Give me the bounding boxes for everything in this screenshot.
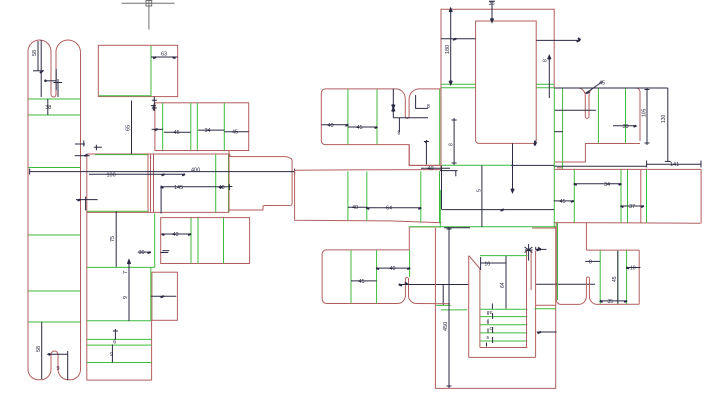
svg-text:45: 45 — [359, 279, 365, 285]
dim vertical line b in left strip — [40, 40, 42, 97]
green y=87.8 right strip of top — [536, 87, 554, 89]
left strip crease green y=115 — [29, 114, 81, 116]
neck step outline x=409.2 — [409, 145, 441, 166]
left strip crease green y=99 — [29, 98, 81, 100]
cursor horizontal line — [122, 2, 175, 4]
right band green x=646.5 — [646, 170, 648, 223]
lower right rect right edge — [638, 250, 640, 304]
U inner wall right — [526, 250, 528, 347]
svg-text:75: 75 — [110, 236, 116, 242]
dim 450 ticks — [447, 229, 452, 386]
dim arrow y=209.3 — [501, 209, 504, 210]
dim tick x=454 — [452, 120, 457, 163]
dim tick y=250.7 — [162, 250, 169, 252]
long dim line y=171.6 (400) — [30, 171, 295, 173]
dim line y=174.3 (100) — [89, 173, 185, 175]
dim 145 right end tick — [228, 184, 230, 190]
right wing inner bottom edge y=143.5 — [555, 144, 640, 163]
center panel green crease y=165.2 — [442, 164, 511, 166]
dim 65 vertical x=131.5 — [131, 101, 133, 155]
dim long dot right — [555, 283, 558, 286]
left tab green x=366.8 — [366, 172, 368, 221]
dim 180 arrows — [450, 9, 452, 83]
dim 40 line y=234 lower-mid — [162, 233, 190, 235]
right inner tall rect — [476, 21, 537, 143]
neck green left x=440.3 — [439, 190, 441, 228]
svg-text:7: 7 — [123, 271, 129, 274]
mid-center rect green vertical x=216.5 — [215, 154, 217, 212]
dim y=183.8 arrows — [574, 184, 622, 185]
green y=84.2 left strip of top — [441, 83, 475, 85]
lower right rect top edge — [586, 249, 639, 251]
U inner wall left — [479, 269, 481, 348]
lower right rect green x=626.6 — [626, 250, 628, 304]
svg-text:36: 36 — [489, 1, 495, 7]
svg-text:16: 16 — [485, 261, 491, 267]
dim vert x=647 ticks — [645, 90, 650, 144]
dim vert x=667.8 — [667, 88, 669, 161]
dim 45 wing line y=127 — [348, 126, 377, 128]
dim 39 line y=125.7 — [613, 125, 636, 127]
fillet leader arrowhead — [586, 92, 589, 93]
lower-left tab green x=376.6 — [376, 250, 378, 303]
dim 45 lower tab line y=280.9 — [351, 280, 377, 282]
mid-left block top edge red — [87, 153, 230, 155]
mid-left block double wall x=153.5 — [153, 154, 155, 213]
U outer wall left — [469, 256, 480, 358]
left strip crease green y=168 — [29, 167, 81, 169]
svg-text:34: 34 — [604, 182, 610, 188]
long dim ticks at ends — [30, 169, 295, 175]
dim 35 arrows — [600, 301, 627, 302]
dim 10 line y=267.5 — [627, 267, 641, 269]
svg-text:105: 105 — [641, 108, 647, 117]
dim 45 vert x=617.8 — [617, 251, 619, 304]
dim arrow (75,155.7) to block corner — [75, 155, 90, 157]
svg-text:8: 8 — [427, 104, 430, 110]
dim tick-dot y=354.3 — [47, 353, 68, 355]
U outer bottom — [469, 356, 536, 358]
upper-mid rect green vertical x=224.3 — [223, 103, 225, 150]
right funnel — [579, 277, 639, 304]
dim notch text — [392, 105, 394, 112]
dim 45 line y=132.2 — [164, 131, 191, 133]
dim 35 line y=300.9 — [600, 300, 626, 302]
dim 38 arrow up — [548, 57, 550, 60]
svg-text:8: 8 — [543, 59, 549, 62]
svg-text:45: 45 — [232, 129, 238, 135]
right tab green x=574.3 — [573, 170, 575, 223]
dim vertical x=441.5 black — [441, 166, 443, 210]
dim 145 end arrows — [161, 187, 223, 188]
svg-text:37: 37 — [629, 204, 635, 210]
svg-text:9: 9 — [57, 366, 60, 372]
dim tick y=170.6 — [440, 171, 458, 177]
svg-text:64: 64 — [386, 205, 392, 211]
arrowhead at block corner — [85, 155, 88, 156]
svg-text:64: 64 — [500, 282, 506, 288]
tread tick marks — [487, 304, 493, 347]
left strip crease green y=322 — [29, 321, 81, 323]
cursor crosshair box — [146, 1, 152, 7]
dim 40 tab line y=207.2 — [348, 206, 367, 208]
right pocket red y=305.3 — [536, 304, 556, 306]
left wing green x=377 — [376, 89, 378, 144]
svg-text:130: 130 — [661, 114, 667, 123]
lower-mid rect green vertical x=198 — [197, 218, 199, 264]
svg-text:40: 40 — [352, 205, 358, 211]
dim 47 line y=40.4 — [536, 39, 579, 41]
dim 40 arrows — [162, 234, 192, 235]
dim 37 arrow — [621, 206, 644, 207]
right wing green x=623.6 — [625, 88, 627, 143]
dim 38 vertical x=549.3 — [548, 57, 550, 98]
dim 36 arrow bottom — [491, 18, 493, 21]
neck left edge dark x=441 y=165-171 — [440, 165, 442, 169]
cursor vertical line — [148, 6, 150, 30]
dim vertical x=512.5 center panel — [512, 143, 514, 191]
left wing outline with funnel notch — [321, 89, 441, 166]
dim 40 wing line y=124.7 — [322, 124, 348, 126]
lower-mid rect outline — [161, 218, 250, 264]
stair tread 1 — [480, 308, 526, 310]
dim 64 line y=207.8 — [367, 207, 421, 209]
dim 40 lower tab line y=268.1 — [377, 267, 410, 269]
dim y=200.9 line — [554, 200, 574, 202]
left tab green x=439.5 — [439, 171, 441, 223]
dim vert x=426.4 — [425, 140, 427, 165]
dim 63 arrows — [153, 57, 176, 58]
svg-text:180: 180 — [445, 45, 451, 54]
dim y=200.9 arrow — [571, 201, 574, 202]
dim 40 arrow to 232 — [229, 186, 232, 188]
mid-left block left edge — [86, 154, 88, 380]
dim tick x=153.3 upper-mid — [151, 105, 156, 111]
svg-text:45: 45 — [560, 199, 566, 205]
dim vertical x=56 — [55, 69, 57, 90]
dim 75 vertical x=116.2 — [115, 211, 117, 266]
dim 39 arrow — [634, 126, 637, 127]
dim horizontal y=110.3 through right funnel — [555, 109, 596, 111]
second strip green right edge mid — [150, 268, 152, 322]
green vertical x=555.6 below top right — [553, 88, 555, 229]
second strip green y=321 — [87, 320, 151, 322]
bottom structure red top right — [532, 227, 556, 229]
U top green edge — [480, 255, 527, 257]
dim vertical x=85.6 — [85, 197, 87, 211]
green y=87.8 left strip of top — [441, 87, 475, 89]
svg-text:40: 40 — [428, 166, 434, 172]
callout arrowhead — [537, 248, 542, 251]
dim horiz y=263 stairs — [481, 262, 506, 264]
dim x=129 arrow top — [128, 261, 130, 264]
left pocket red y=303.7 — [436, 303, 451, 305]
left tab green x=420.8 — [420, 171, 422, 222]
svg-text:40: 40 — [173, 232, 179, 238]
small lower rect outline — [152, 272, 178, 320]
svg-text:45: 45 — [599, 81, 605, 87]
left strip crease green y=291 — [29, 290, 81, 292]
dim vert x=454.1 — [453, 118, 455, 165]
dim 36 vertical x=492 — [491, 1, 493, 21]
svg-text:63: 63 — [161, 52, 167, 58]
dim vert x=115.4 y=330-339 — [113, 329, 118, 339]
dim 40 lower tab arrows — [376, 268, 410, 269]
svg-text:34: 34 — [205, 128, 211, 134]
dim vertical x=399.4 below notch — [398, 118, 400, 132]
upper-mid rect green vertical x=190.8 — [190, 103, 192, 150]
mid-left block double wall x=150.5 — [150, 154, 152, 213]
svg-text:E: E — [490, 310, 493, 315]
lower-left tab step up — [408, 227, 410, 250]
dim 145 line y=186.8 — [161, 186, 229, 188]
dim arrow y=38.7 — [453, 39, 456, 40]
cursor cross lines — [146, 1, 152, 7]
dim y=199.6 line — [76, 199, 98, 201]
dim arrow y=129.3 — [152, 128, 163, 130]
second strip green y=339.4 — [87, 338, 151, 340]
right pocket green y=309 — [535, 308, 557, 310]
right band green x=627.5 — [627, 170, 629, 223]
right band green x=621 — [620, 170, 622, 223]
small black tick y=131.7 right of green — [555, 131, 564, 133]
svg-text:45: 45 — [612, 276, 618, 282]
svg-text:8: 8 — [589, 260, 592, 266]
dim 30 arrow — [148, 252, 151, 253]
lower right rect green x=617.8 — [617, 250, 619, 304]
dim arrow head y=332 — [538, 332, 541, 333]
mid-left block double wall x=148 — [147, 154, 149, 213]
svg-text:10: 10 — [630, 266, 636, 272]
right top outer rect — [441, 9, 554, 165]
mid-left block green bottom — [87, 210, 148, 212]
svg-text:35: 35 — [608, 299, 614, 305]
dim 38 vertical x=47.8 — [47, 99, 49, 115]
stair tread 4 — [480, 332, 526, 334]
left connector tab outline — [229, 154, 292, 210]
dim 180 vertical x=450.7 — [450, 9, 452, 83]
right tab left edge green — [557, 167, 562, 169]
dim 64 arrows — [366, 208, 421, 209]
top-left rect outline — [98, 45, 177, 96]
dim horiz black y=227.7 — [444, 227, 470, 229]
dim tick y=82 — [54, 82, 63, 84]
svg-text:58: 58 — [32, 50, 38, 56]
dim vertical x=161.1 — [160, 186, 162, 214]
dim corner tick (75,144) — [75, 141, 85, 147]
svg-text:9: 9 — [110, 352, 113, 358]
dim 8 line y=261.4 — [585, 260, 600, 262]
top-left rect green bottom — [99, 95, 151, 97]
callout vertical tick x=535.7 — [535, 247, 537, 250]
dim tick x=480.6 — [480, 257, 482, 270]
svg-text:58: 58 — [36, 346, 42, 352]
dim vertical x=443.2 left pocket — [442, 285, 444, 305]
U outer wall right — [535, 251, 537, 358]
dim long line y=284.5 left part — [400, 284, 469, 286]
svg-text:38: 38 — [45, 105, 51, 111]
svg-text:5: 5 — [476, 189, 482, 192]
dim 45 wing arrow — [375, 127, 378, 128]
dim 58 vertical line a in left strip — [37, 41, 39, 71]
dim long top line y=88 — [554, 87, 667, 89]
bottom structure green top left — [409, 226, 556, 228]
black dim line y=166 toward far right — [554, 165, 646, 167]
dim vert x=506 stairs — [505, 256, 507, 309]
green vertical x=439.7 below top left — [439, 89, 441, 166]
svg-text:5: 5 — [487, 335, 490, 340]
left strip outline (two tombstones top, two feet bottom) — [28, 40, 81, 380]
second strip bottom edge — [87, 379, 152, 381]
dim vertical x=57.5 — [57, 79, 59, 97]
svg-text:40: 40 — [328, 123, 334, 129]
green y=84.2 right strip of top — [536, 83, 554, 85]
dim arrow small rect y=296.3 — [151, 295, 176, 297]
dim tick (96,147) — [94, 145, 102, 151]
bottom structure outer outline — [410, 227, 556, 389]
svg-text:100: 100 — [107, 173, 116, 179]
mid-center rect right edge x=229 — [228, 150, 230, 212]
dim 36 tick top — [489, 0, 495, 2]
svg-text:65: 65 — [126, 125, 132, 131]
dim blob at x=512.5 bottom — [511, 189, 513, 192]
svg-text:145: 145 — [174, 185, 183, 191]
right lower tab green edge — [557, 223, 559, 300]
svg-text:8: 8 — [398, 131, 401, 137]
dim 141 tick right — [647, 161, 701, 168]
mid block red bottom y=212.4 — [87, 211, 229, 213]
lower-mid rect green vertical x=223.5 — [223, 218, 225, 264]
dim vert x=112.4 y=344-362 — [111, 345, 113, 363]
stair tread 5 — [480, 340, 526, 342]
dim arrow blob left strip — [40, 71, 43, 73]
dim 450 vertical x=449 — [448, 227, 450, 388]
callout cluster top right of U — [525, 244, 533, 261]
stair tread 3 — [480, 324, 526, 326]
dim 34 line y=130.1 — [198, 129, 224, 131]
svg-text:400: 400 — [191, 167, 200, 173]
right lower tab vertical x=586.4 upper — [585, 223, 587, 250]
dim tick x=426.4 top — [424, 141, 429, 143]
upper-mid rect green vertical x=197.3 — [196, 103, 198, 150]
svg-text:8: 8 — [448, 143, 454, 146]
dim long line y=284.3 right part — [536, 283, 595, 285]
dim x=667.8 corner tick — [665, 160, 671, 162]
dim vert x=415.6 — [415, 95, 417, 109]
right wing green x=598.4 — [597, 88, 599, 143]
svg-text:45: 45 — [357, 125, 363, 131]
dim 141 line y=164.3 — [647, 163, 701, 165]
dim blob at inner rect bottom right — [534, 141, 537, 146]
svg-text:40: 40 — [219, 185, 225, 191]
dim 47 arrow — [577, 38, 581, 42]
upper-mid rect outline — [155, 103, 249, 151]
svg-text:30: 30 — [139, 250, 145, 256]
right wing outline with funnel notch — [554, 88, 640, 141]
svg-text:450: 450 — [443, 322, 449, 331]
left tab green x=347.9 — [347, 172, 349, 221]
dim horizontal y=117.7 — [393, 117, 428, 119]
lower-left tab outline with funnel — [322, 250, 435, 304]
svg-text:9: 9 — [123, 296, 129, 299]
dim vert x=41.7 bottom strip — [41, 322, 43, 379]
right band red x=640.8 — [640, 170, 642, 223]
svg-text:39: 39 — [623, 124, 629, 130]
dim horizontal y=209.3 — [442, 209, 555, 211]
dim 37 line y=206 — [621, 205, 643, 207]
dim 45b line y=131.7 — [224, 131, 248, 133]
lower-left tab green x=351 — [350, 250, 352, 303]
U inner bottom — [480, 347, 528, 349]
svg-text:45: 45 — [174, 130, 180, 136]
second strip green y=345.1 — [87, 344, 151, 346]
dim vertical x=481.9 center panel — [481, 166, 483, 228]
svg-text:141: 141 — [670, 162, 679, 168]
dim arrow y=332 right pocket — [537, 331, 557, 333]
dim y=199.6 arrow — [78, 199, 81, 200]
second strip green y=267 — [87, 266, 155, 268]
left pocket green y=309.9 — [441, 309, 467, 311]
dim 100 arrow right — [162, 174, 186, 175]
dim arrow blob small rect — [161, 296, 164, 297]
left strip crease green y=235 — [29, 234, 81, 236]
second strip red right edge lower — [151, 321, 153, 381]
dim 63 line in top-left rect — [151, 56, 178, 58]
fillet leader diagonal — [586, 82, 603, 94]
dim 40 on tab edge line y=168.3 — [421, 167, 450, 169]
svg-text:40: 40 — [390, 266, 396, 272]
dim vert x=58.9 bottom strip — [67, 351, 69, 380]
right wing green x=562.6 — [562, 88, 564, 169]
dim 30 line y=252.1 — [138, 251, 151, 253]
dim leader dot (44.5,80.6) — [44, 80, 47, 83]
dim horizontal y=108.4 — [416, 107, 429, 109]
left wing green x=347.9 — [347, 89, 349, 144]
center panel black line y=165.4 right part — [511, 164, 554, 166]
dim 10 arrow — [626, 267, 629, 268]
dim y=183.8 line — [574, 183, 621, 185]
small vertical tick x=154 y=96-111 — [152, 97, 157, 112]
U top right corner red — [527, 250, 532, 290]
lower-mid rect green vertical x=191 — [190, 218, 192, 264]
dim vert x=392.9 notch — [392, 89, 394, 118]
svg-text:6: 6 — [113, 340, 116, 346]
dim vert x=647 — [646, 88, 648, 146]
dim arrow blob (156,129) — [155, 129, 158, 130]
dim horizontal y=38.7 — [441, 38, 476, 40]
dim tick y=252.5 right — [160, 252, 168, 254]
upper-mid rect green vertical x=162.7 — [162, 103, 164, 150]
right tab band top edge y=169.3 x=555-701 — [554, 168, 701, 170]
far-right rect right edge — [700, 169, 702, 223]
right-assembly left tab outline — [295, 170, 442, 223]
dot at 49,354 — [48, 353, 51, 356]
lower-left tab green x=409.6 short — [409, 250, 411, 277]
mid-left block top edge green overlay — [95, 154, 148, 156]
top-left rect green vertical x=151 — [150, 46, 152, 97]
second strip green y=362.5 — [87, 362, 151, 364]
second strip green right edge upper — [154, 214, 156, 268]
mid-center rect green vertical x=222 — [228, 154, 230, 212]
lower right rect green x=600.2 — [599, 250, 601, 304]
left pocket green y=305.4 — [436, 304, 451, 306]
dim line y=80.6 — [46, 80, 57, 82]
dim long arrow left — [399, 283, 408, 286]
callout arrow right of wall — [536, 248, 547, 250]
dim tick y=70.8 — [33, 70, 44, 72]
right lower tab left edge — [556, 223, 579, 305]
dim vert x=129 y=261-321 — [128, 262, 130, 322]
